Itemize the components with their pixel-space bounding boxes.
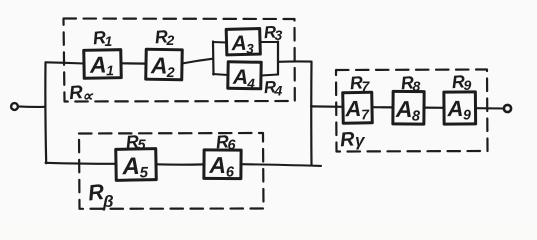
label R-gamma: [339, 128, 366, 151]
wire: input bus to A1: [46, 62, 85, 63]
dashed box R-alpha: [64, 19, 295, 102]
label R4: [263, 77, 282, 98]
svg-text:7: 7: [362, 78, 371, 94]
wire: left terminal to input bus: [18, 105, 45, 108]
svg-text:1: 1: [105, 33, 113, 49]
split node vertical wire: [212, 42, 215, 75]
svg-text:4: 4: [246, 76, 255, 91]
wire A6 to right bus: [241, 164, 321, 166]
resistor box A2: [146, 49, 183, 80]
wire A5 to A6: [156, 163, 204, 166]
wire A1 to A2: [121, 62, 146, 64]
wire A2 to split node: [182, 59, 213, 64]
svg-text:A: A: [121, 153, 140, 180]
right terminal: [504, 105, 511, 112]
wire join node to right bus: [278, 60, 312, 62]
label R3: [263, 22, 282, 43]
svg-text:8: 8: [412, 109, 421, 125]
resistor box A5: [116, 149, 157, 182]
svg-text:6: 6: [228, 138, 237, 154]
svg-text:3: 3: [246, 41, 254, 56]
svg-text:γ: γ: [355, 131, 366, 150]
wire split to A4: [213, 74, 228, 75]
wire A3 to join node: [260, 41, 278, 43]
wire: left vertical input bus: [44, 63, 47, 164]
label R9: [451, 71, 471, 93]
svg-text:9: 9: [463, 106, 471, 122]
svg-text:6: 6: [226, 165, 235, 181]
svg-text:A: A: [395, 96, 413, 122]
svg-text:2: 2: [166, 64, 175, 80]
label R-alpha: [68, 82, 94, 105]
dashed box R-beta: [79, 133, 264, 209]
resistor box A9: [444, 92, 476, 124]
svg-text:4: 4: [274, 83, 283, 99]
wire A4 to join node: [261, 75, 278, 76]
label R5: [125, 131, 147, 153]
label R-beta: [87, 179, 114, 211]
svg-text:A: A: [89, 51, 107, 77]
svg-text:1: 1: [106, 62, 114, 78]
resistor box A6: [204, 150, 241, 181]
svg-text:5: 5: [139, 164, 148, 181]
svg-text:A: A: [232, 66, 249, 89]
svg-text:A: A: [446, 96, 463, 121]
label R8: [400, 72, 421, 94]
svg-text:9: 9: [464, 77, 472, 93]
resistor box A4: [228, 62, 262, 92]
wire split to A3: [213, 41, 227, 44]
wire A9 to right terminal: [476, 107, 505, 109]
resistor box A7: [343, 92, 373, 123]
svg-text:A: A: [344, 96, 361, 121]
dashed box R-gamma: [336, 70, 488, 152]
svg-text:2: 2: [166, 32, 175, 48]
left terminal: [11, 103, 18, 110]
svg-text:5: 5: [138, 138, 147, 154]
label R2: [154, 26, 175, 48]
label R6: [215, 131, 237, 153]
label R1: [92, 27, 113, 49]
wire A8 to A9: [424, 106, 444, 108]
resistor box A1: [84, 50, 121, 79]
label R7: [349, 72, 371, 94]
svg-text:A: A: [208, 152, 226, 178]
right vertical bus: [310, 62, 312, 166]
svg-text:A: A: [230, 32, 247, 55]
resistor box A3: [226, 29, 260, 57]
wire: bottom branch from input bus to A5: [46, 163, 117, 164]
svg-text:β: β: [102, 192, 114, 211]
wire A7 to A8: [372, 106, 393, 108]
wire right bus to A7: [311, 105, 343, 108]
svg-text:R: R: [339, 128, 355, 151]
resistor box A8: [393, 91, 424, 124]
svg-text:8: 8: [413, 78, 421, 94]
svg-text:A: A: [150, 52, 168, 78]
svg-text:∝: ∝: [82, 88, 94, 105]
join node vertical wire: [277, 42, 279, 75]
